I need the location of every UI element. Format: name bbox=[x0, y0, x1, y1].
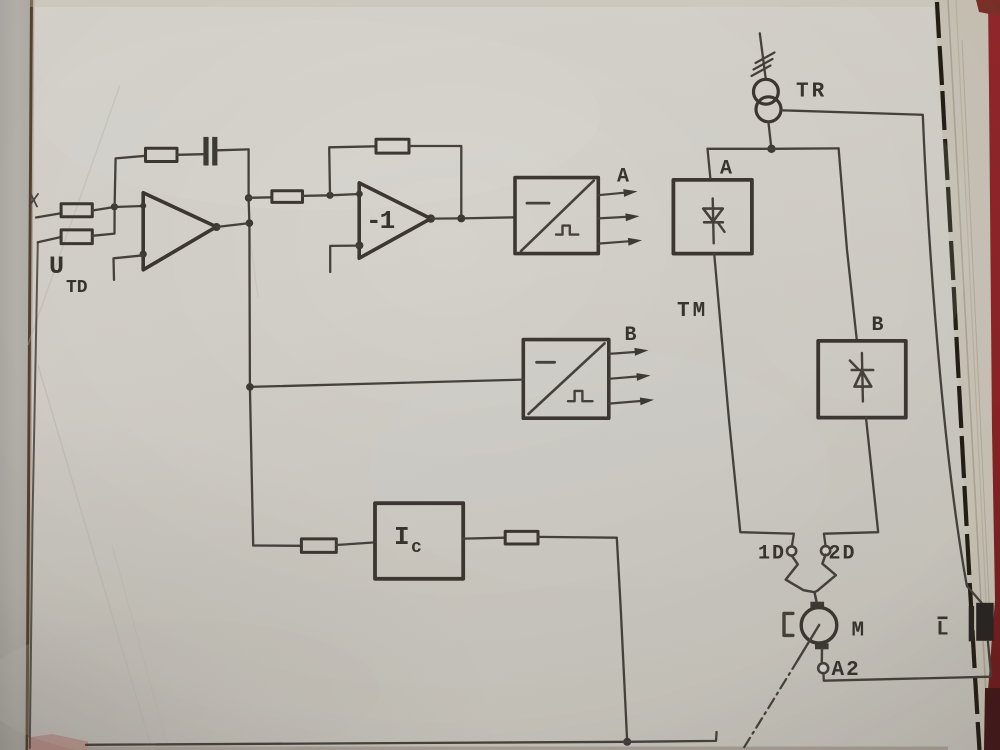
wire R6 to Ic bbox=[336, 542, 375, 545]
wire R2 to summing node bbox=[92, 207, 114, 236]
wire R3 to C1 bbox=[177, 153, 204, 156]
top edge warm tint bbox=[30, 0, 1000, 7]
motor frame bracket bbox=[784, 613, 793, 635]
left page edge line bbox=[27, 0, 32, 750]
junction summing node bbox=[111, 203, 118, 210]
bottom-left shadow bbox=[0, 370, 560, 750]
junction U2 feedback bbox=[457, 214, 465, 222]
wire main bus vertical bbox=[249, 149, 254, 545]
power hatches bbox=[752, 53, 775, 77]
op-amp U2 bbox=[359, 183, 431, 258]
wire bus to R4 bbox=[249, 196, 272, 199]
converter block CA bbox=[515, 178, 598, 254]
wire U2 reference leg bbox=[330, 246, 359, 272]
arrows converter B output bbox=[609, 352, 635, 354]
wire node to box A bbox=[708, 149, 711, 180]
wire brush to A2 bbox=[821, 649, 824, 663]
right pages strip bbox=[934, 0, 1000, 750]
wire U2 output to converter A bbox=[431, 217, 515, 218]
reactor L bbox=[976, 603, 994, 641]
wire R4 to U2 input bbox=[303, 194, 360, 196]
wire node bar bbox=[708, 147, 839, 150]
bottom-left pink cover patch bbox=[28, 734, 88, 750]
resistor R1 bbox=[61, 204, 92, 217]
junction bus-R4 bbox=[245, 194, 253, 202]
wire feedback riser left bbox=[115, 156, 146, 207]
junction bottom rail bbox=[623, 738, 631, 746]
zigzag 1D to motor bbox=[786, 556, 815, 593]
junction U2 input bbox=[326, 192, 333, 199]
wire to R2 bbox=[38, 237, 61, 242]
wire node bar to box B bbox=[839, 148, 857, 339]
resistor R3 feedback bbox=[146, 148, 178, 161]
wire zigzag to motor brush bbox=[815, 592, 817, 601]
op-amp U1 bbox=[143, 193, 216, 270]
thyristor box B bbox=[818, 341, 906, 418]
converter block CB bbox=[523, 340, 609, 419]
transformer TR bbox=[754, 79, 779, 104]
faint scratches bbox=[28, 85, 120, 345]
wire U1 output bbox=[217, 223, 250, 227]
wire U_TD riser bbox=[30, 242, 38, 748]
wire TR to right riser bbox=[781, 110, 982, 603]
wire A2 to L bbox=[824, 641, 992, 680]
wire feedback riser U2 bbox=[329, 146, 376, 195]
input x mark bbox=[30, 194, 39, 207]
resistor R7 bbox=[505, 531, 538, 544]
capacitor C1 bbox=[203, 137, 208, 166]
resistor R6 bbox=[301, 539, 336, 553]
resistor R4 bbox=[272, 191, 303, 203]
wire box A to 1D bbox=[714, 254, 794, 547]
wire bus corner to R6 bbox=[253, 544, 301, 547]
wire box B to 2D bbox=[824, 418, 878, 546]
wire input to R1 bbox=[36, 213, 61, 217]
motor shaft bbox=[798, 625, 819, 660]
motor M bbox=[801, 608, 837, 644]
thyristor box A bbox=[673, 180, 752, 254]
node supply bbox=[767, 145, 775, 153]
thyristor B symbol bbox=[862, 353, 863, 402]
motor top brush bbox=[810, 602, 824, 608]
wire bus to converter B bbox=[250, 380, 523, 387]
wire U1 reference leg bbox=[114, 255, 144, 280]
terminal 1D bbox=[787, 546, 796, 555]
wire R1 to summing node bbox=[92, 206, 143, 211]
motor bottom brush bbox=[815, 643, 829, 649]
terminal 2D bbox=[821, 546, 830, 555]
block Ic bbox=[375, 503, 463, 579]
right page edge broken line bbox=[937, 2, 980, 750]
wire TR to node bbox=[768, 122, 771, 149]
resistor R2 bbox=[61, 230, 92, 244]
junction bus-output bbox=[246, 219, 254, 227]
shaft dash-dot linkage bbox=[743, 660, 799, 750]
wire C1 to output bus corner bbox=[217, 148, 248, 151]
wire Ic to R7 bbox=[463, 537, 505, 540]
right red cover bbox=[985, 0, 1000, 750]
resistor R5 feedback bbox=[376, 139, 409, 153]
wire R5 to U2 output bbox=[409, 146, 461, 218]
wire bottom rail bbox=[86, 732, 717, 745]
wire R7 down to bottom rail bbox=[538, 537, 627, 742]
bottom edge shading bbox=[88, 747, 948, 750]
junction bus-converterB bbox=[246, 383, 254, 391]
thyristor A symbol bbox=[713, 198, 714, 243]
arrows converter A output bbox=[598, 193, 624, 196]
tonal blotches bbox=[40, 20, 600, 210]
zigzag 2D to motor bbox=[815, 555, 836, 593]
left margin strip bbox=[0, 0, 30, 750]
power feed lead bbox=[760, 33, 766, 79]
terminal A2 bbox=[818, 663, 828, 673]
